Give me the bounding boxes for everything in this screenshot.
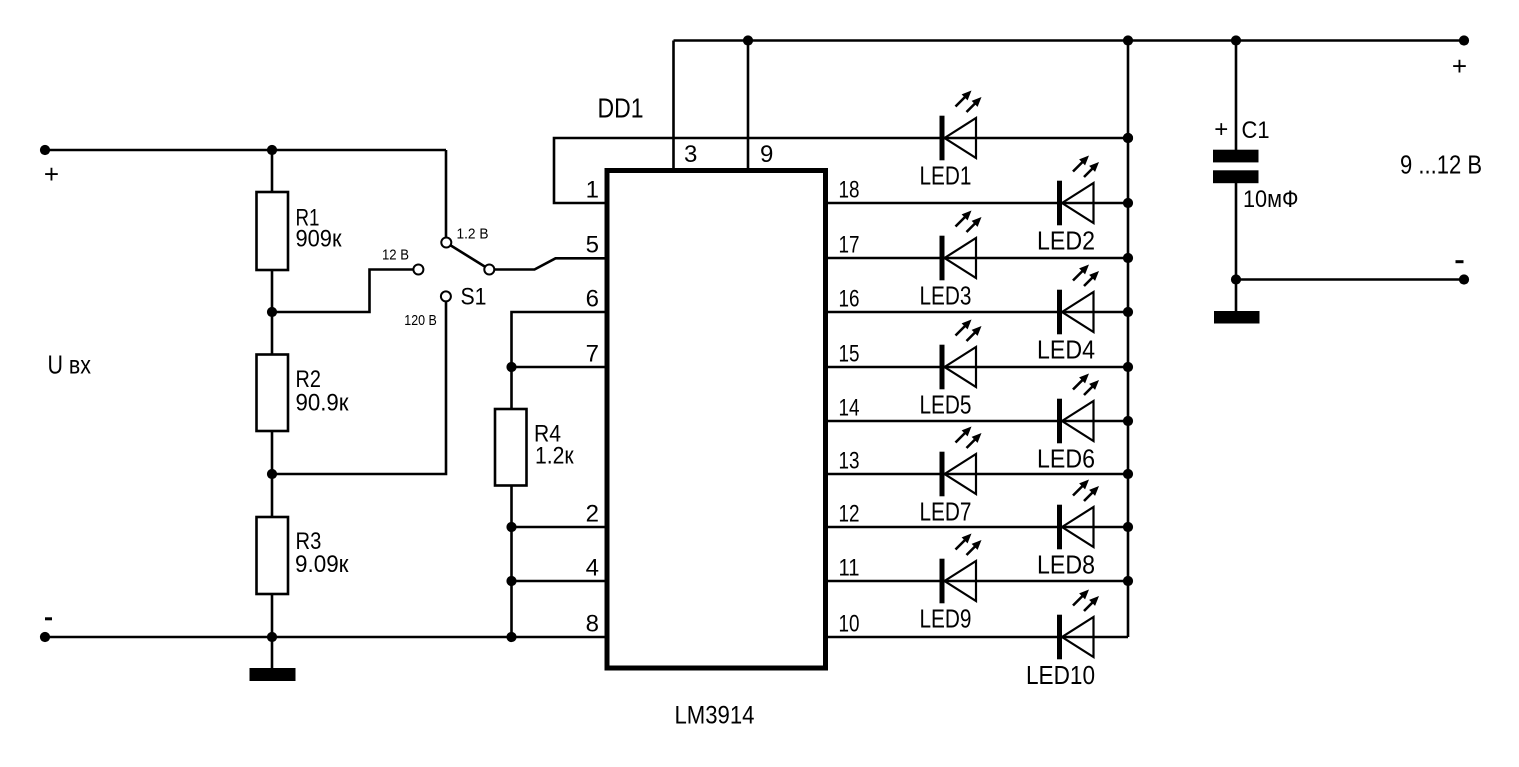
svg-text:LED4: LED4 bbox=[1037, 335, 1095, 365]
svg-text:1.2к: 1.2к bbox=[535, 443, 574, 470]
wire top rail to switch 1.2V contact bbox=[445, 150, 448, 238]
wire pin row to LED8 bbox=[826, 526, 1129, 529]
wire pin 2 branch bbox=[512, 526, 608, 529]
wire pin 9 to top rail bbox=[747, 41, 750, 171]
switch S1 contact 1.2V bbox=[441, 238, 451, 248]
LED6 bbox=[1057, 399, 1062, 444]
wire pin row to LED6 bbox=[826, 420, 1129, 423]
wire pin row to LED7 bbox=[826, 473, 1129, 476]
label - (supply minus) bbox=[1456, 260, 1464, 263]
junction LED5 rail bbox=[1123, 362, 1133, 372]
switch S1 contact 120V bbox=[441, 291, 451, 301]
junction pin7-R4 bbox=[506, 362, 516, 372]
wire R4 bottom lead bbox=[510, 486, 513, 638]
wire pin row to LED10 bbox=[826, 636, 1129, 639]
junction LED1 rail bbox=[1123, 133, 1133, 143]
junction LED1 rail bbox=[1123, 133, 1133, 143]
svg-text:909к: 909к bbox=[296, 226, 342, 253]
svg-text:3: 3 bbox=[684, 141, 697, 168]
label - (input minus) bbox=[45, 617, 52, 620]
svg-text:11: 11 bbox=[839, 555, 860, 582]
wire C1 ground stub bbox=[1235, 280, 1238, 313]
svg-text:9.09к: 9.09к bbox=[295, 551, 349, 578]
svg-text:8: 8 bbox=[586, 611, 599, 638]
wire pin 7 branch bbox=[512, 366, 608, 369]
LED3 bbox=[940, 236, 945, 281]
svg-text:10мФ: 10мФ bbox=[1243, 186, 1299, 213]
svg-text:1: 1 bbox=[586, 177, 599, 204]
wire R1-R2 bbox=[271, 270, 274, 355]
switch S1 pole bbox=[484, 265, 494, 275]
resistor R3 bbox=[257, 517, 289, 594]
node input minus terminal bbox=[40, 632, 50, 642]
wire top rail bbox=[674, 39, 1465, 42]
junction LED2 rail bbox=[1123, 198, 1133, 208]
svg-text:6: 6 bbox=[586, 286, 599, 313]
wire bottom ground rail bbox=[44, 636, 607, 639]
resistor R1 bbox=[257, 192, 289, 270]
resistor R4 bbox=[495, 409, 527, 486]
svg-text:LED6: LED6 bbox=[1037, 444, 1095, 474]
LED1 bbox=[940, 116, 945, 161]
junction bottom at R3 bbox=[267, 632, 277, 642]
svg-text:16: 16 bbox=[839, 286, 860, 313]
wire R2-R3 bbox=[271, 431, 274, 518]
svg-text:12 В: 12 В bbox=[382, 247, 409, 264]
svg-text:+: + bbox=[1214, 116, 1228, 143]
junction LED7 rail bbox=[1123, 469, 1133, 479]
svg-text:+: + bbox=[44, 159, 59, 189]
svg-text:9: 9 bbox=[760, 141, 773, 168]
wire 120V tap bbox=[272, 302, 446, 475]
svg-text:90.9к: 90.9к bbox=[296, 389, 349, 416]
wire ground stub bbox=[271, 637, 274, 669]
svg-text:LED9: LED9 bbox=[920, 604, 972, 634]
junction LED3 rail bbox=[1123, 253, 1133, 263]
node supply minus terminal bbox=[1459, 274, 1469, 284]
junction LED8 rail bbox=[1123, 522, 1133, 532]
LED5 bbox=[940, 345, 945, 390]
svg-text:LM3914: LM3914 bbox=[675, 701, 755, 729]
ground (supply) bbox=[1214, 311, 1260, 324]
LED7 bbox=[940, 452, 945, 497]
wire supply minus rail bbox=[1236, 278, 1464, 281]
junction C1 minus bbox=[1231, 274, 1241, 284]
svg-text:S1: S1 bbox=[461, 284, 487, 311]
LED9 bbox=[940, 559, 945, 604]
resistor R2 bbox=[257, 355, 289, 432]
svg-text:C1: C1 bbox=[1242, 117, 1270, 144]
svg-text:U вх: U вх bbox=[48, 350, 92, 380]
wire R1 top lead bbox=[271, 150, 274, 193]
svg-text:12: 12 bbox=[839, 501, 860, 528]
svg-text:+: + bbox=[1452, 51, 1467, 81]
junction pin9 top rail bbox=[743, 35, 753, 45]
junction LED4 rail bbox=[1123, 307, 1133, 317]
svg-text:LED5: LED5 bbox=[920, 390, 972, 420]
svg-text:2: 2 bbox=[586, 501, 599, 528]
svg-text:LED2: LED2 bbox=[1037, 226, 1095, 256]
LED8 bbox=[1057, 505, 1062, 550]
svg-text:9 ...12 В: 9 ...12 В bbox=[1400, 150, 1482, 180]
svg-text:DD1: DD1 bbox=[598, 93, 644, 124]
svg-text:14: 14 bbox=[839, 395, 860, 422]
svg-text:LED8: LED8 bbox=[1037, 550, 1095, 580]
junction input top at R1 bbox=[267, 145, 277, 155]
svg-text:1.2 В: 1.2 В bbox=[457, 226, 489, 243]
wire R3 bottom lead bbox=[271, 594, 274, 637]
wire pin 3 to top rail bbox=[672, 41, 675, 171]
junction C1 top rail bbox=[1231, 35, 1241, 45]
junction LED6 rail bbox=[1123, 416, 1133, 426]
wire pin row to LED9 bbox=[826, 580, 1129, 583]
svg-text:18: 18 bbox=[839, 177, 860, 204]
node input plus terminal bbox=[40, 145, 50, 155]
capacitor C1 bbox=[1213, 150, 1259, 163]
wire pin row to LED4 bbox=[826, 311, 1129, 314]
wire input top rail bbox=[44, 149, 446, 152]
junction right rail top bbox=[1123, 35, 1133, 45]
junction node 120V tap bbox=[267, 469, 277, 479]
ground (input) bbox=[250, 668, 296, 681]
op-amp U1 / IC DD1 LM3914 body bbox=[607, 171, 826, 669]
wire 12V tap to switch bbox=[272, 270, 414, 313]
wire pin row to LED3 bbox=[826, 257, 1129, 260]
switch S1 contact 12V bbox=[413, 265, 423, 275]
svg-text:LED1: LED1 bbox=[920, 161, 972, 191]
svg-text:13: 13 bbox=[839, 448, 860, 475]
svg-text:7: 7 bbox=[586, 341, 599, 368]
wire switch pole to pin 5 bbox=[495, 258, 608, 269]
junction pin4 bbox=[506, 576, 516, 586]
junction pin8 rail bbox=[506, 632, 516, 642]
junction node 12V tap bbox=[267, 307, 277, 317]
LED10 bbox=[1057, 615, 1062, 660]
svg-text:LED3: LED3 bbox=[920, 281, 972, 311]
svg-text:120 В: 120 В bbox=[404, 312, 437, 329]
wire C1 top lead bbox=[1235, 41, 1238, 151]
svg-text:17: 17 bbox=[839, 232, 860, 259]
wire pin row to LED5 bbox=[826, 366, 1129, 369]
junction pin2 bbox=[506, 522, 516, 532]
wire pin 1 to LED1 line bbox=[554, 138, 1128, 203]
wire C1 bottom lead bbox=[1235, 183, 1238, 280]
svg-text:LED10: LED10 bbox=[1026, 660, 1095, 690]
wire pin 4 branch bbox=[512, 580, 608, 583]
svg-text:LED7: LED7 bbox=[920, 497, 972, 527]
node supply plus terminal bbox=[1459, 35, 1469, 45]
wire pin row to LED2 bbox=[826, 202, 1129, 205]
LED2 bbox=[1057, 181, 1062, 226]
wire right rail bbox=[1127, 41, 1130, 638]
svg-text:5: 5 bbox=[586, 232, 599, 259]
svg-text:4: 4 bbox=[586, 555, 599, 582]
LED4 bbox=[1057, 290, 1062, 335]
wire pin 6 branch bbox=[512, 312, 608, 410]
svg-text:15: 15 bbox=[839, 341, 860, 368]
switch S1 lever bbox=[446, 243, 490, 270]
junction LED9 rail bbox=[1123, 576, 1133, 586]
svg-text:10: 10 bbox=[839, 611, 860, 638]
